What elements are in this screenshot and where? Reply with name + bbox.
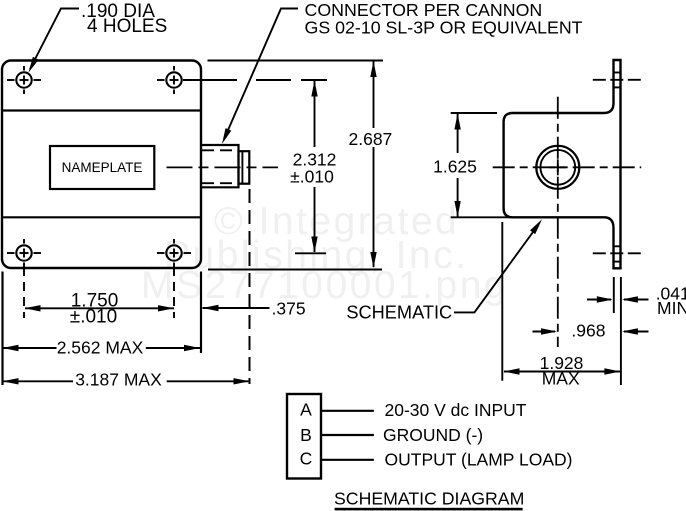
dimension 3.187 MAX line	[3, 380, 73, 382]
top-right hole centerline solid extension	[183, 79, 237, 81]
leader schematic location	[454, 225, 539, 313]
svg-text:.968: .968	[571, 321, 605, 341]
svg-text:GROUND (-): GROUND (-)	[383, 425, 483, 445]
connector centerline	[167, 166, 279, 168]
side view horizontal centerline	[493, 166, 642, 168]
flange top slot centerline	[593, 79, 641, 81]
dimension 2.687 line	[373, 62, 375, 129]
extension lines 1.625	[451, 112, 497, 114]
connector boss inner circle	[540, 150, 575, 185]
svg-text:2.687: 2.687	[349, 129, 393, 149]
connector coupling ring	[239, 151, 250, 184]
svg-text:MS277100001.png: MS277100001.png	[141, 264, 508, 307]
extension line left of case	[1, 272, 3, 386]
extension line bottom hole centerline	[295, 252, 326, 254]
extension dashed line below right holes	[173, 267, 175, 318]
extension line top of case	[208, 60, 384, 62]
front view upper flange line	[2, 109, 201, 111]
svg-text:±.010: ±.010	[290, 167, 334, 187]
extension dashed line below left holes	[23, 267, 25, 318]
wire A	[321, 410, 374, 412]
dimension 1.750 line	[25, 307, 174, 309]
dimension 2.562 MAX line	[3, 347, 57, 349]
leader .190 DIA	[30, 9, 79, 70]
dimension 1.625 line	[457, 114, 459, 153]
extension dashed line connector face	[249, 189, 251, 384]
mounting hole bottom-left	[7, 239, 41, 267]
svg-text:.375: .375	[272, 299, 306, 319]
side view case and flange outline	[504, 60, 621, 268]
svg-text:4 HOLES: 4 HOLES	[87, 16, 167, 37]
top hole centerline dashed extension to 2.312 dim	[256, 79, 291, 81]
connector hidden lines	[202, 149, 237, 151]
svg-text:20-30 V dc INPUT: 20-30 V dc INPUT	[385, 400, 527, 420]
dimension 2.312 line	[314, 81, 316, 147]
connector body	[201, 145, 239, 187]
svg-text:OUTPUT (LAMP LOAD): OUTPUT (LAMP LOAD)	[385, 450, 573, 470]
svg-text:1.625: 1.625	[433, 157, 477, 177]
side view vertical centerline	[557, 97, 559, 347]
svg-text:A: A	[300, 400, 312, 420]
connector boss center cross	[550, 166, 566, 168]
watermark	[141, 200, 508, 307]
mounting hole bottom-right	[157, 239, 191, 267]
flange bottom slot centerline	[593, 252, 641, 254]
svg-text:SCHEMATIC DIAGRAM: SCHEMATIC DIAGRAM	[334, 489, 524, 509]
extension line right of case	[200, 272, 202, 354]
svg-text:MAX: MAX	[542, 369, 580, 389]
mounting hole top-right	[157, 66, 191, 94]
extension lines .041	[613, 277, 615, 313]
schematic terminal box	[287, 394, 321, 479]
front view lower flange line	[2, 216, 201, 218]
svg-text:SCHEMATIC: SCHEMATIC	[346, 303, 452, 323]
connector boss outer circle	[536, 146, 579, 189]
leader connector note	[225, 9, 298, 138]
wire C	[321, 459, 374, 461]
nameplate rectangle	[50, 146, 154, 189]
wire B	[321, 434, 374, 436]
mounting hole top-left	[7, 66, 41, 94]
svg-text:B: B	[300, 425, 312, 445]
dimension 1.928 MAX line	[504, 371, 620, 373]
dimension .968 arrows	[533, 331, 556, 333]
front view case outline	[2, 61, 201, 269]
dimension .375 leader	[203, 307, 270, 309]
svg-text:GS 02-10 SL-3P OR EQUIVALENT: GS 02-10 SL-3P OR EQUIVALENT	[305, 18, 583, 38]
flange top slot	[614, 72, 621, 74]
svg-text:±.010: ±.010	[70, 307, 117, 328]
svg-text:3.187 MAX: 3.187 MAX	[75, 370, 162, 390]
svg-text:NAMEPLATE: NAMEPLATE	[62, 160, 143, 175]
svg-text:MIN: MIN	[657, 298, 686, 318]
svg-text:C: C	[300, 449, 313, 469]
flange bottom slot	[614, 245, 621, 247]
extension line 1.928 left	[501, 222, 503, 381]
svg-text:2.562 MAX: 2.562 MAX	[57, 338, 144, 358]
dimension .041 arrows	[587, 299, 611, 301]
extension line bottom of case	[208, 269, 382, 271]
